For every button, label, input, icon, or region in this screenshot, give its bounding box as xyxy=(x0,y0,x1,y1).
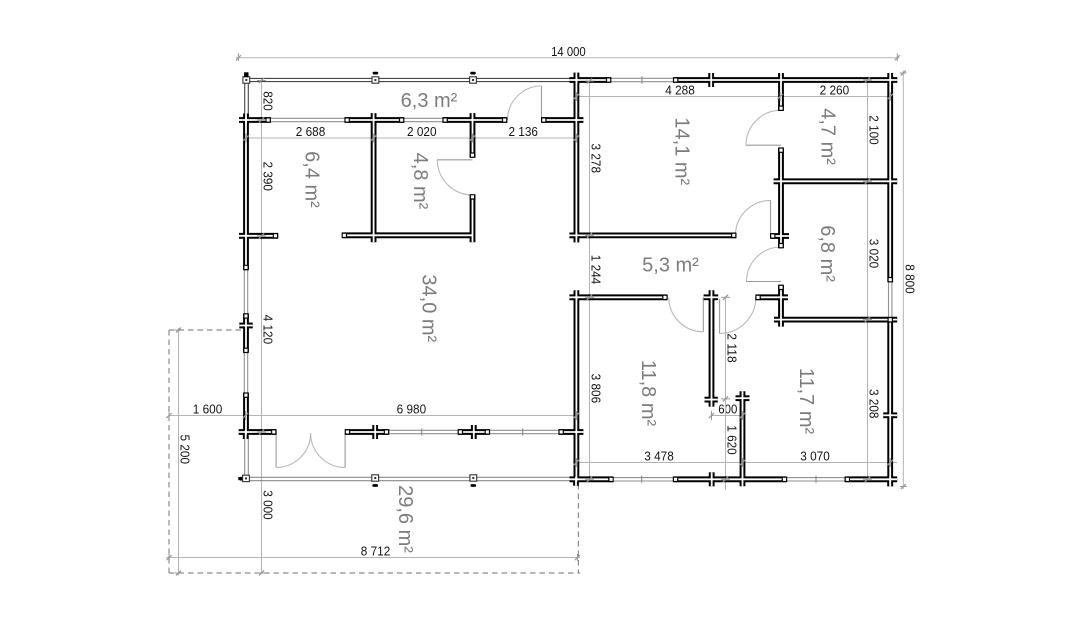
window bottom-left wall 2 xyxy=(490,429,559,436)
double door left leaf xyxy=(275,433,277,468)
room label 4,7 m2 xyxy=(817,108,839,165)
double door left arc xyxy=(276,433,311,468)
svg-text:2 118: 2 118 xyxy=(725,333,740,363)
wall y479 a xyxy=(570,476,614,482)
svg-text:4,7 m²: 4,7 m² xyxy=(817,108,839,165)
dimension line 1 600 / 6 980 xyxy=(169,402,576,417)
wall right x890 lower xyxy=(887,318,893,487)
dimension line 820 / 2 390 / 4 120 / 3 000 xyxy=(261,79,276,573)
dimension line 600 xyxy=(712,402,743,417)
wall y399 arms x711 xyxy=(705,397,718,403)
stub down x576 y235 xyxy=(574,233,580,242)
wall x576 upper xyxy=(574,77,580,235)
wall y398 arms x742 xyxy=(736,395,750,401)
door porch entry arc xyxy=(508,86,542,120)
stub arms x711 y479 xyxy=(709,472,715,486)
room label 11,8 m2 xyxy=(637,360,659,427)
svg-text:3 478: 3 478 xyxy=(644,449,674,464)
dimension line 5 200 xyxy=(175,328,193,576)
svg-text:5 200: 5 200 xyxy=(178,435,193,465)
door room 4,7 leaf xyxy=(746,144,781,146)
wall y432 a xyxy=(239,429,276,435)
svg-text:4 288: 4 288 xyxy=(665,83,695,98)
room label 6,8 m2 xyxy=(816,225,838,282)
stub down x246 y432 xyxy=(243,430,249,439)
dimension line 8 800 xyxy=(900,71,918,490)
dimension tick marks xyxy=(166,77,893,575)
svg-text:29,6 m²: 29,6 m² xyxy=(394,485,416,553)
wall y432 b xyxy=(345,429,389,435)
wall x576 lower xyxy=(574,297,580,482)
terrace corner post xyxy=(238,475,249,481)
wall y432 c xyxy=(458,429,490,435)
svg-text:2 688: 2 688 xyxy=(296,124,326,139)
porch railing top xyxy=(244,78,577,81)
wall left x246 lower xyxy=(243,393,249,435)
svg-text:1 620: 1 620 xyxy=(725,425,740,455)
wall y235 rooms 6,4-4,8 xyxy=(342,232,473,238)
dimension line 2 100 / 3 020 / 3 208 xyxy=(867,80,882,479)
stub down x576 y479 xyxy=(573,477,579,486)
stub up x576 top xyxy=(574,73,580,84)
svg-text:11,7 m²: 11,7 m² xyxy=(795,368,817,435)
room label 11,7 m2 xyxy=(795,368,817,435)
svg-text:3 070: 3 070 xyxy=(800,449,830,464)
room label 5,3 m2 xyxy=(642,255,699,277)
dimension line 14 000 xyxy=(236,44,900,61)
door room 6,8 leaf xyxy=(746,281,781,283)
door room 14,1 leaf xyxy=(770,200,772,235)
dashed terrace outline right xyxy=(577,484,579,573)
room label 4,8 m2 xyxy=(409,153,431,210)
svg-text:6,8 m²: 6,8 m² xyxy=(816,225,838,282)
dimension line 3 278 / 1 244 / 3 806 xyxy=(589,81,604,479)
wall x472 upper xyxy=(470,113,476,157)
door room 11,7 leaf xyxy=(719,299,721,334)
wall y120 c xyxy=(443,117,507,123)
door room 11,8 leaf xyxy=(702,297,704,332)
stub up x576 y297 xyxy=(574,290,580,300)
svg-text:14 000: 14 000 xyxy=(551,44,586,59)
wall end caps xyxy=(243,77,893,482)
window bottom-right wall 2 xyxy=(787,476,845,483)
room label 14,1 m2 xyxy=(671,117,693,185)
wall top x576-611 xyxy=(569,77,611,83)
window right wall xyxy=(889,282,892,318)
wall x781 top xyxy=(778,73,784,111)
window wall y120 right xyxy=(404,118,443,121)
wall x781 low xyxy=(778,285,784,327)
terrace edge front xyxy=(240,477,576,480)
window left wall upper xyxy=(244,270,247,314)
wall y320 rooms 6,8-11,7 xyxy=(774,317,897,323)
svg-text:2 020: 2 020 xyxy=(407,124,437,139)
svg-text:11,8 m²: 11,8 m² xyxy=(637,360,659,427)
double door right arc xyxy=(311,433,346,468)
svg-text:2 260: 2 260 xyxy=(820,83,850,98)
dashed terrace outline left xyxy=(168,330,170,573)
window left wall lower xyxy=(244,353,247,393)
door room 11,7 arc xyxy=(720,297,756,333)
svg-text:3 208: 3 208 xyxy=(867,389,882,419)
svg-text:820: 820 xyxy=(261,91,276,111)
terrace post 2 xyxy=(372,475,379,487)
svg-text:1 600: 1 600 xyxy=(193,402,223,417)
double door right leaf xyxy=(344,433,346,468)
dimension line 8 712 xyxy=(167,544,581,561)
door room 14,1 arc xyxy=(736,200,771,235)
stub arms x375 y432 xyxy=(372,425,378,439)
wall top x673-897 xyxy=(673,77,897,83)
svg-text:34,0 m²: 34,0 m² xyxy=(418,274,440,342)
terrace edge left xyxy=(245,435,249,478)
door room 4,8 arc xyxy=(437,160,472,195)
stub up x246 y120 xyxy=(243,114,249,125)
svg-text:8 712: 8 712 xyxy=(361,544,391,559)
svg-text:1 244: 1 244 xyxy=(589,255,604,285)
svg-text:3 278: 3 278 xyxy=(589,144,604,174)
room label 34,0 m2 xyxy=(418,274,440,342)
wall x742 closet xyxy=(740,391,746,486)
svg-text:2 390: 2 390 xyxy=(261,161,276,191)
svg-text:3 806: 3 806 xyxy=(589,374,604,404)
porch corner post xyxy=(243,72,250,83)
wall y325 arms left wall xyxy=(239,323,253,329)
wall left x246 pier xyxy=(243,314,249,353)
wall y297 corridor b xyxy=(756,294,788,300)
dashed terrace outline top xyxy=(169,329,243,331)
svg-text:2 100: 2 100 xyxy=(867,115,882,145)
wall y479 b xyxy=(673,476,786,482)
door porch entry leaf xyxy=(541,86,543,120)
wall y297 corridor a xyxy=(569,294,667,300)
wall x711 closet xyxy=(709,290,715,406)
terrace post 3 xyxy=(470,475,477,487)
svg-text:6,4 m²: 6,4 m² xyxy=(301,151,323,208)
wall y235 room 14,1 xyxy=(569,232,736,238)
wall y236 stub at x781 xyxy=(771,233,790,239)
door room 11,8 arc xyxy=(669,297,704,332)
room label 6,4 m2 xyxy=(301,151,323,208)
porch post 2 xyxy=(372,72,379,84)
wall y432 d xyxy=(559,429,584,435)
door room 4,8 leaf xyxy=(437,159,473,161)
stub arms x473 y432 xyxy=(471,425,477,439)
wall right x890 upper xyxy=(887,73,893,282)
dashed terrace outline bottom xyxy=(169,572,580,574)
dimension line 2 688 / 2 020 / 2 136 xyxy=(246,124,576,139)
svg-text:3 000: 3 000 xyxy=(261,490,276,520)
wall x373 rooms 6,4-4,8 xyxy=(371,113,377,242)
room label 6,3 m2 xyxy=(401,90,458,112)
wall y235 left stub xyxy=(239,233,278,239)
svg-text:14,1 m²: 14,1 m² xyxy=(671,117,693,185)
room label 29,6 m2 xyxy=(394,485,416,553)
svg-text:6,3 m²: 6,3 m² xyxy=(401,90,458,112)
window bottom-right wall 1 xyxy=(613,476,673,483)
svg-text:4,8 m²: 4,8 m² xyxy=(409,153,431,210)
window bottom-left wall 1 xyxy=(389,429,458,436)
svg-text:600: 600 xyxy=(718,402,737,417)
svg-text:8 800: 8 800 xyxy=(902,264,917,294)
wall x472 lower xyxy=(470,195,476,243)
svg-text:3 020: 3 020 xyxy=(867,239,882,269)
wall left x246 upper xyxy=(243,117,249,270)
wall y297 stub x711 xyxy=(704,294,719,300)
wall y120 a xyxy=(239,117,271,123)
window top wall xyxy=(611,77,674,84)
porch railing left xyxy=(245,77,249,120)
stub down x890 y479 xyxy=(887,477,893,486)
wall centrelines xyxy=(239,73,898,487)
svg-text:4 120: 4 120 xyxy=(261,315,276,345)
door room 6,8 arc xyxy=(747,247,782,282)
wall x781 mid xyxy=(778,148,784,248)
wall y181 rooms 4,7-6,8 xyxy=(774,178,898,184)
door room 4,7 arc xyxy=(746,110,781,145)
wall y479 c xyxy=(845,476,897,482)
dimension line 3 478 / 3 070 xyxy=(576,449,897,464)
stub x711 top wall xyxy=(708,73,714,87)
wall y415 arms right wall xyxy=(883,412,897,418)
window wall y120 left xyxy=(271,118,345,121)
svg-text:2 136: 2 136 xyxy=(508,124,538,139)
wall y120 d xyxy=(542,117,584,123)
dimension line 2 118 / 1 620 xyxy=(725,297,740,490)
svg-text:6 980: 6 980 xyxy=(397,402,427,417)
porch post 3 xyxy=(470,72,477,84)
svg-text:5,3 m²: 5,3 m² xyxy=(642,255,699,277)
dimension line 4 288 / 2 260 xyxy=(576,83,890,98)
wall y120 b xyxy=(345,117,404,123)
